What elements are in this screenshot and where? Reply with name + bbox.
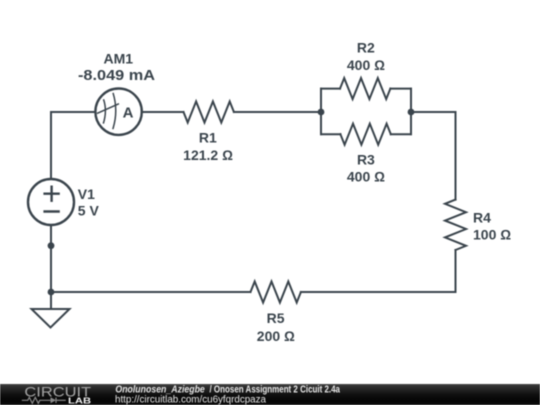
svg-text:200 Ω: 200 Ω (257, 328, 295, 344)
svg-text:R2: R2 (357, 40, 375, 56)
svg-text:AM1: AM1 (104, 50, 134, 66)
svg-text:LAB: LAB (68, 395, 91, 405)
svg-text:V1: V1 (78, 186, 95, 202)
svg-text:-8.049 mA: -8.049 mA (78, 68, 156, 84)
svg-text:R1: R1 (199, 130, 217, 146)
svg-text:R3: R3 (357, 152, 375, 168)
svg-text:100 Ω: 100 Ω (473, 226, 511, 242)
svg-text:R5: R5 (267, 310, 285, 326)
svg-text:121.2 Ω: 121.2 Ω (183, 147, 233, 163)
svg-text:400 Ω: 400 Ω (347, 57, 385, 73)
svg-text:400 Ω: 400 Ω (347, 169, 385, 185)
svg-text:R4: R4 (473, 210, 491, 226)
svg-text:5 V: 5 V (78, 203, 100, 219)
svg-text:A: A (123, 104, 134, 121)
svg-text:http://circuitlab.com/cu6yfqrd: http://circuitlab.com/cu6yfqrdcpaza (115, 395, 266, 405)
